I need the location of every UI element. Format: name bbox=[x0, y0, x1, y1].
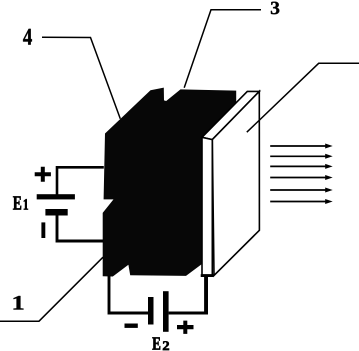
white plate: right face bbox=[212, 91, 259, 275]
battery E2 long plate bbox=[163, 291, 169, 332]
white plate: top face bbox=[202, 91, 259, 139]
label 4 bbox=[23, 29, 32, 45]
wire E1 top bbox=[57, 167, 104, 195]
pointer line for 4 bbox=[42, 37, 120, 119]
wire E2 right bbox=[169, 312, 206, 315]
label E2 bbox=[152, 337, 160, 349]
battery E2 short plate bbox=[148, 297, 154, 325]
wire E2 left bbox=[109, 276, 148, 314]
wire E1 bottom bbox=[57, 215, 104, 242]
emission arrow 1 bbox=[270, 144, 333, 149]
label 1 bbox=[13, 296, 23, 310]
emission arrow 4 bbox=[270, 175, 333, 180]
battery E1 short plate bbox=[45, 209, 67, 216]
white plate: thick bottom edge bbox=[201, 274, 214, 277]
pointer line for 3 bbox=[184, 10, 261, 88]
plus sign E1 bbox=[35, 167, 51, 182]
emission arrow 3 bbox=[270, 164, 333, 169]
emission arrow 6 bbox=[270, 199, 333, 204]
emission arrow 5 bbox=[270, 188, 333, 193]
label E1 bbox=[13, 196, 21, 209]
label 3 bbox=[271, 2, 279, 14]
minus sign E1 (vertical bar) bbox=[41, 222, 45, 238]
emission arrow 2 bbox=[270, 154, 333, 159]
plus sign E2 bbox=[177, 321, 194, 334]
pointer line top right bbox=[247, 63, 359, 132]
battery E1 long plate bbox=[37, 194, 75, 199]
minus sign E2 bbox=[125, 324, 138, 328]
black slab stack (layers 1,3,4) bbox=[103, 88, 237, 277]
pointer line for 1 bbox=[0, 257, 103, 321]
white plate: front edge face bbox=[202, 137, 212, 275]
